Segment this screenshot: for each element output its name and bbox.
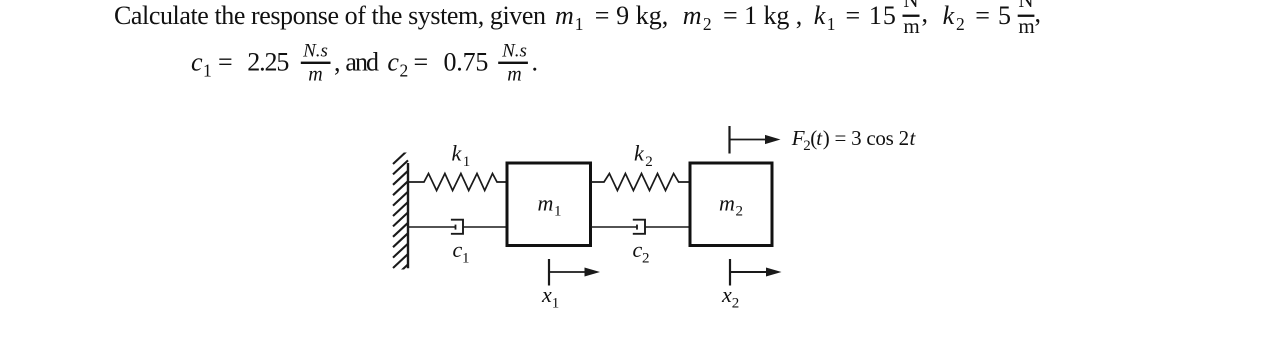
- svg-text:c: c: [387, 48, 399, 77]
- damper c2 piston plate: [636, 225, 638, 230]
- damper c1 cylinder cup: [451, 220, 463, 234]
- svg-text:,: ,: [334, 48, 341, 77]
- svg-text:1: 1: [575, 14, 584, 34]
- spring k2: [591, 174, 689, 191]
- force F2 arrowhead: [765, 135, 781, 144]
- force label F2(t) = 3 cos 2t: [791, 126, 917, 154]
- svg-text:1: 1: [463, 154, 471, 170]
- svg-text:x: x: [721, 282, 732, 307]
- svg-text:m: m: [719, 191, 735, 216]
- displacement x2 tick: [729, 259, 731, 286]
- label m2: [719, 191, 743, 220]
- label m1: [538, 191, 562, 220]
- svg-text:= 9 kg,: = 9 kg,: [595, 1, 669, 30]
- fraction N.s/m after 2.25: [301, 41, 331, 86]
- damper c2 rod left: [591, 226, 637, 228]
- svg-text:N.s: N.s: [501, 41, 527, 62]
- displacement x2 arrowhead: [766, 268, 782, 277]
- svg-text:and: and: [345, 48, 379, 77]
- spring k1: [408, 174, 506, 191]
- svg-text:k: k: [452, 141, 463, 166]
- svg-text:m: m: [308, 64, 322, 86]
- svg-text:k: k: [814, 1, 826, 30]
- label k1: [452, 141, 471, 171]
- svg-text:1: 1: [552, 295, 560, 311]
- displacement x1 arrowhead: [585, 268, 601, 277]
- svg-text:= 1 kg ,: = 1 kg ,: [723, 1, 802, 30]
- damper c2 cylinder cup: [633, 220, 645, 234]
- svg-text:1: 1: [462, 251, 470, 267]
- svg-text:2: 2: [645, 154, 653, 170]
- damper c1 piston plate: [455, 225, 457, 230]
- svg-text:2: 2: [736, 204, 744, 220]
- wall hatching: [393, 150, 408, 278]
- displacement x2 arrow shaft: [730, 271, 767, 273]
- svg-text:x: x: [541, 282, 552, 307]
- svg-text:=: =: [218, 48, 233, 77]
- wall line: [407, 163, 409, 268]
- svg-text:1: 1: [827, 14, 836, 34]
- svg-text:m: m: [555, 1, 574, 30]
- mass m1 box: [507, 163, 591, 246]
- label x1: [541, 282, 559, 312]
- svg-text:2: 2: [956, 14, 965, 34]
- svg-text:= 5: = 5: [975, 1, 1011, 30]
- svg-text:2: 2: [703, 14, 712, 34]
- displacement x1 arrow shaft: [549, 271, 586, 273]
- svg-text:k: k: [634, 141, 645, 166]
- damper c1 rod right: [463, 226, 506, 228]
- svg-text:2: 2: [400, 61, 409, 81]
- svg-text:m: m: [903, 14, 919, 38]
- svg-text:.: .: [532, 48, 539, 77]
- svg-text:m: m: [538, 191, 554, 216]
- svg-text:0.75: 0.75: [444, 48, 489, 77]
- svg-text:m: m: [1018, 14, 1034, 38]
- svg-text:c: c: [191, 48, 203, 77]
- svg-text:2.25: 2.25: [247, 48, 289, 77]
- svg-text:c: c: [453, 237, 463, 262]
- svg-text:=: =: [414, 48, 429, 77]
- svg-text:1: 1: [203, 61, 212, 81]
- force F2 arrow shaft: [730, 139, 766, 141]
- svg-text:) = 3 cos 2: ) = 3 cos 2: [823, 126, 909, 150]
- svg-text:,: ,: [1035, 0, 1042, 27]
- svg-text:Calculate the response of the: Calculate the response of the system, gi…: [114, 1, 546, 30]
- label c1: [453, 237, 470, 267]
- svg-text:,: ,: [922, 0, 929, 27]
- problem statement line 1: [114, 0, 1041, 34]
- damper c1 rod left: [408, 226, 456, 228]
- svg-text:N: N: [1018, 0, 1033, 12]
- svg-text:m: m: [507, 64, 521, 86]
- problem statement line 2: [191, 48, 538, 81]
- fraction N.s/m after 0.75: [498, 41, 528, 86]
- label c2: [633, 237, 650, 267]
- force F2 tick: [728, 126, 730, 154]
- svg-text:c: c: [633, 237, 643, 262]
- svg-text:2: 2: [642, 251, 650, 267]
- label x2: [721, 282, 739, 312]
- svg-text:N.s: N.s: [302, 41, 328, 62]
- displacement x1 tick: [548, 259, 550, 286]
- mass m2 box: [690, 163, 772, 246]
- svg-text:k: k: [943, 1, 955, 30]
- svg-text:N: N: [903, 0, 918, 12]
- damper c2 rod right: [645, 226, 689, 228]
- label k2: [634, 141, 653, 171]
- fraction N/m after 5: [1018, 0, 1035, 38]
- svg-text:= 15: = 15: [846, 1, 896, 30]
- svg-text:2: 2: [732, 295, 740, 311]
- svg-text:m: m: [683, 1, 702, 30]
- fraction N/m after 15: [903, 0, 920, 38]
- svg-text:1: 1: [554, 204, 562, 220]
